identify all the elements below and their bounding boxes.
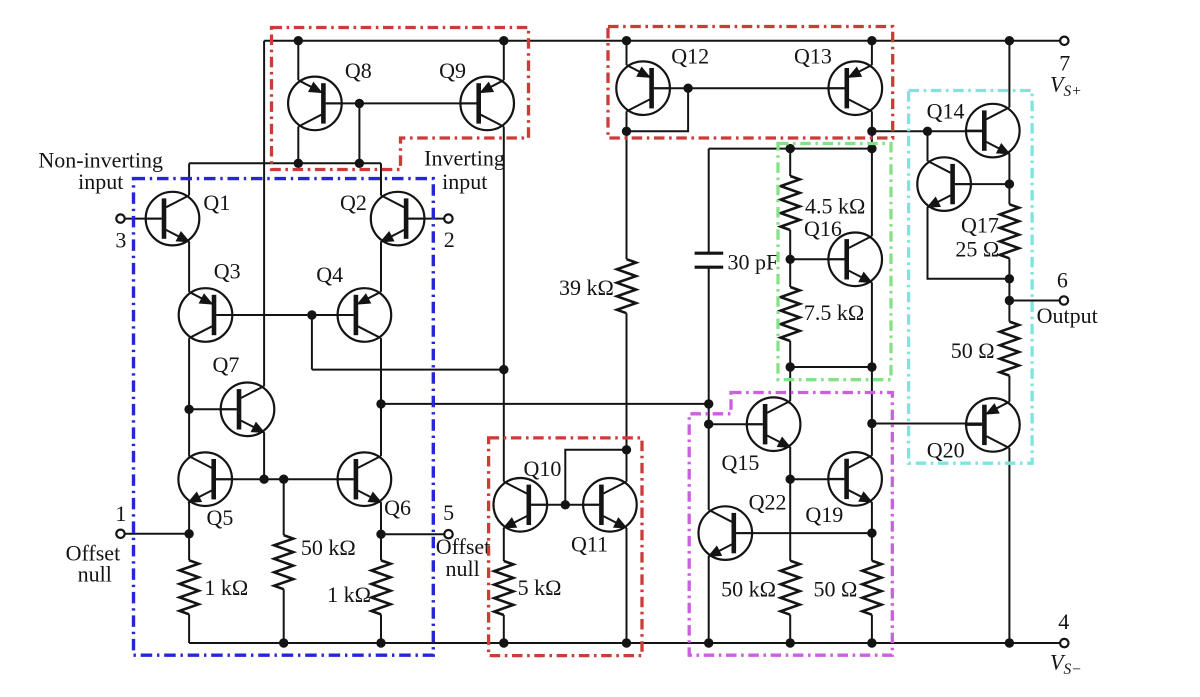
transistor Q10 xyxy=(494,478,549,532)
junction 50 kOhm gain on rail xyxy=(786,638,795,647)
transistor Q6 xyxy=(336,452,391,506)
svg-text:39 kΩ: 39 kΩ xyxy=(559,275,614,300)
wire V_S+ top rail xyxy=(264,40,1060,42)
junction Q11 emitter on rail xyxy=(622,638,631,647)
transistor Q9 xyxy=(459,77,514,131)
svg-text:Q5: Q5 xyxy=(207,505,234,530)
junction 5 kOhm on rail xyxy=(499,638,508,647)
region box current mirror Q12 Q13 (red) xyxy=(608,27,893,139)
svg-text:1: 1 xyxy=(115,501,126,526)
wire Q4 collector to Q6 collector xyxy=(380,338,382,456)
junction Q15 base node xyxy=(704,420,713,429)
svg-text:Q19: Q19 xyxy=(805,502,843,527)
junction bias network top tap xyxy=(786,144,795,153)
transistor Q15 xyxy=(746,397,801,451)
wire Q13 collector column xyxy=(871,111,873,236)
junction bias bottom right node xyxy=(867,362,876,371)
wire Q5 emitter xyxy=(188,502,190,560)
wire Q14 emitter xyxy=(1008,154,1010,205)
transistor Q14 xyxy=(965,104,1020,158)
svg-text:50 Ω: 50 Ω xyxy=(814,576,858,601)
junction 50k tap on base bus xyxy=(279,475,288,484)
transistor Q4 xyxy=(336,288,391,342)
wire Q1 Q2 collector bus xyxy=(189,162,381,164)
transistor Q8 xyxy=(288,77,343,131)
wire Q19 base xyxy=(790,478,844,480)
junction Q12 emitter on rail xyxy=(622,36,631,45)
svg-text:Q10: Q10 xyxy=(524,456,562,481)
svg-text:Q1: Q1 xyxy=(203,190,230,215)
junction Q14 collector on rail xyxy=(1005,36,1014,45)
junction output node xyxy=(1005,296,1014,305)
wire bias bottom wire xyxy=(790,366,872,368)
wire Q17 emitter path xyxy=(928,207,1010,278)
wire Q3 collector to Q5 collector xyxy=(188,338,190,456)
wire Q8 emitter to rail xyxy=(297,41,299,80)
wire Q13 collector to Q19 collector xyxy=(871,367,873,456)
svg-text:Q20: Q20 xyxy=(927,438,965,463)
junction Q16 base tap xyxy=(786,255,795,264)
transistor Q7 xyxy=(220,383,275,437)
svg-text:7.5 kΩ: 7.5 kΩ xyxy=(804,300,864,325)
junction 1 kOhm right on rail xyxy=(376,638,385,647)
svg-text:Q3: Q3 xyxy=(214,259,241,284)
junction Q17 emitter node xyxy=(1005,274,1014,283)
terminal pin 4 xyxy=(1060,639,1068,647)
svg-text:Inverting: Inverting xyxy=(424,146,505,171)
junction Q19 base tap xyxy=(786,475,795,484)
svg-text:Q9: Q9 xyxy=(439,58,466,83)
wire Q10 base to Q11 base xyxy=(531,504,599,506)
terminal pin 3 non-inverting input xyxy=(116,214,124,222)
resistor body 1 kOhm right xyxy=(371,560,390,614)
terminal pin 7 xyxy=(1060,37,1068,45)
svg-text:6: 6 xyxy=(1057,268,1068,293)
svg-text:25 Ω: 25 Ω xyxy=(955,236,999,261)
junction Q8 base node xyxy=(355,99,364,108)
svg-text:input: input xyxy=(78,169,123,194)
junction Q8 emitter on rail xyxy=(294,36,303,45)
junction 50 Ohm gain on rail xyxy=(867,638,876,647)
wire 25 Ohm to output xyxy=(1008,258,1010,321)
svg-text:null: null xyxy=(445,556,479,581)
wire pin 1 to Q5 emitter xyxy=(125,533,190,535)
transistor Q20 xyxy=(965,398,1020,452)
transistor Q13 xyxy=(827,61,882,115)
wire Q2 emitter to Q4 emitter xyxy=(380,242,382,292)
wire Q15 collector xyxy=(789,367,791,401)
transistor Q17 xyxy=(917,157,972,211)
terminal pin 2 inverting input xyxy=(444,214,452,222)
wire Q5 base to Q6 base xyxy=(216,478,354,480)
junction bias bottom left node xyxy=(786,362,795,371)
resistor body 50 Ohm output xyxy=(1000,322,1019,376)
resistor body 5 kOhm xyxy=(494,561,513,615)
junction Q4 collector node xyxy=(376,399,385,408)
wire Q12 emitter to rail xyxy=(626,41,628,65)
wire Q12 base to Q13 base xyxy=(654,87,845,89)
terminal pin 6 output xyxy=(1060,296,1068,304)
svg-text:3: 3 xyxy=(115,228,126,253)
resistor body 50 kOhm gain xyxy=(781,561,800,615)
svg-text:1 kΩ: 1 kΩ xyxy=(204,575,248,600)
junction bias bus to Q9 collector xyxy=(499,365,508,374)
wire gain node bus to Q15 base column xyxy=(381,403,709,405)
wire Q1 collector xyxy=(188,163,190,195)
junction 50k input on V_S- rail xyxy=(279,638,288,647)
wire 1 kOhm left to rail xyxy=(188,614,190,643)
junction Q13 collector node xyxy=(867,127,876,136)
transistor Q3 xyxy=(179,288,234,342)
junction cap to gain bus node xyxy=(704,399,713,408)
wire Q20 base wire xyxy=(872,423,982,425)
wire Q12 collector-base tie xyxy=(627,88,689,131)
resistor body 39 kOhm xyxy=(617,259,636,313)
wire Q8 base to collector tie xyxy=(358,103,360,163)
svg-text:2: 2 xyxy=(444,227,455,252)
wire Q6 emitter xyxy=(380,502,382,560)
wire Q11 base-collector tie xyxy=(565,450,626,505)
wire base bias bus xyxy=(312,369,504,371)
region box gain stage Q15 Q19 Q22 (magenta) xyxy=(689,393,892,656)
resistor body 4.5 kOhm xyxy=(781,176,800,230)
svg-text:Q4: Q4 xyxy=(316,262,343,287)
resistor body 25 Ohm xyxy=(1000,204,1019,258)
wire 4.5k top lead xyxy=(789,149,791,176)
svg-text:Q7: Q7 xyxy=(213,352,240,377)
resistor body 7.5 kOhm xyxy=(781,287,800,341)
wire Q17 base xyxy=(955,183,1010,185)
junction Q7 emitter on base bus xyxy=(259,475,268,484)
wire Q2 base to pin 2 xyxy=(408,218,444,220)
wire Q1 emitter to Q3 emitter xyxy=(188,242,190,292)
terminal pin 5 offset null xyxy=(444,530,452,538)
junction pin 1 tap xyxy=(184,529,193,538)
wire capacitor bottom lead xyxy=(708,267,710,404)
wire 7.5k bottom lead xyxy=(789,341,791,367)
svg-text:1 kΩ: 1 kΩ xyxy=(327,582,371,607)
wire Q9 collector down xyxy=(503,127,505,370)
resistor body 1 kOhm left xyxy=(180,560,199,614)
svg-text:5: 5 xyxy=(443,500,454,525)
svg-text:50 Ω: 50 Ω xyxy=(951,338,995,363)
wire Q8 collector xyxy=(297,127,299,164)
svg-text:Q16: Q16 xyxy=(804,216,842,241)
svg-text:Q11: Q11 xyxy=(571,532,608,557)
svg-text:Q13: Q13 xyxy=(794,44,832,69)
transistor Q11 xyxy=(582,478,637,532)
junction Q10 Q11 base node xyxy=(561,500,570,509)
junction Q22 base tap xyxy=(867,528,876,537)
wire Q1 base to pin 3 xyxy=(125,218,162,220)
svg-text:Q22: Q22 xyxy=(749,490,787,515)
wire Q2 collector xyxy=(380,163,382,195)
svg-text:null: null xyxy=(78,561,112,586)
wire 5 kOhm to rail xyxy=(503,615,505,643)
svg-text:5 kΩ: 5 kΩ xyxy=(518,575,562,600)
svg-text:Q6: Q6 xyxy=(384,495,411,520)
junction pin 5 tap xyxy=(376,530,385,539)
region box output stage Q14 Q17 Q20 (cyan) xyxy=(909,91,1033,464)
wire Q14 base wire xyxy=(872,130,982,132)
wire Q11 emitter xyxy=(626,528,628,643)
wire 50k input to rail xyxy=(283,589,285,643)
svg-text:50 kΩ: 50 kΩ xyxy=(721,576,776,601)
svg-text:Q14: Q14 xyxy=(927,99,965,124)
region box input stage (blue) xyxy=(134,179,434,656)
wire 39k lead from Q12 xyxy=(626,131,628,259)
transistor Q5 xyxy=(178,452,233,506)
wire Q15 emitter to 50k xyxy=(789,447,791,560)
region box current mirror Q10 Q11 (red) xyxy=(489,438,642,656)
svg-text:50 kΩ: 50 kΩ xyxy=(301,535,356,560)
transistor Q2 xyxy=(371,192,426,246)
region box current mirror Q8 Q9 (red) xyxy=(272,28,529,170)
wire 50 Ohm gain to rail xyxy=(871,615,873,643)
wire 50k input lead xyxy=(283,479,285,535)
junction Q20 base tap xyxy=(867,419,876,428)
wire Q3 base to Q4 base xyxy=(216,314,353,316)
junction Q17 collector tap xyxy=(923,127,932,136)
svg-text:Q2: Q2 xyxy=(340,190,367,215)
wire V_S- bottom rail xyxy=(189,642,1060,644)
svg-text:Q8: Q8 xyxy=(345,58,372,83)
wire Q9 collector to Q10 collector xyxy=(503,370,505,482)
svg-text:VS+: VS+ xyxy=(1050,72,1082,101)
wire compensation top wire xyxy=(709,148,872,150)
svg-text:30 pF: 30 pF xyxy=(728,249,779,274)
wire Q7 base xyxy=(189,408,237,410)
svg-text:Q15: Q15 xyxy=(722,450,760,475)
junction Q9 emitter on rail xyxy=(499,36,508,45)
wire Q19 emitter to 50 Ohm xyxy=(871,502,873,561)
junction Q22 emitter on rail xyxy=(704,638,713,647)
wire 50 kOhm gain to rail xyxy=(789,615,791,643)
svg-text:Q12: Q12 xyxy=(671,44,709,69)
junction Q11 collector-base tie node xyxy=(622,445,631,454)
wire 39k to Q11 collector xyxy=(626,313,628,481)
wire Q12 collector xyxy=(626,111,628,131)
wire Q8 base to Q9 base xyxy=(326,102,477,104)
wire Q22 emitter xyxy=(708,556,710,643)
wire Q10 emitter xyxy=(503,528,505,561)
svg-text:4.5 kΩ: 4.5 kΩ xyxy=(805,194,865,219)
wire Q15 base xyxy=(709,423,763,425)
resistor body 50 Ohm gain xyxy=(862,561,881,615)
junction base tie on bus xyxy=(355,159,364,168)
wire Q17 collector xyxy=(927,131,929,161)
transistor Q1 xyxy=(145,192,200,246)
wire output wire xyxy=(1009,300,1059,302)
svg-text:Q17: Q17 xyxy=(961,213,999,238)
wire Q9 emitter to rail xyxy=(503,41,505,80)
svg-text:4: 4 xyxy=(1058,609,1069,634)
wire Q7 collector to V_S+ rail xyxy=(263,41,265,387)
wire 50 Ohm to Q20 emitter xyxy=(1008,376,1010,402)
capacitor C1 30 pF xyxy=(695,253,724,267)
junction Q12 base node xyxy=(683,84,692,93)
wire 1 kOhm right to rail xyxy=(380,614,382,643)
wire Q20 collector to rail xyxy=(1008,448,1010,643)
svg-text:input: input xyxy=(442,169,487,194)
wire capacitor top lead xyxy=(708,149,710,254)
junction Q3 Q4 base node xyxy=(307,310,316,319)
junction Q17 base node xyxy=(1005,179,1014,188)
wire Q16 base xyxy=(790,258,844,260)
wire Q13 emitter to rail xyxy=(871,41,873,65)
transistor Q16 xyxy=(827,232,882,286)
wire Q7 emitter xyxy=(263,433,265,480)
junction Q13 collector to bias top xyxy=(867,144,876,153)
wire base node drop xyxy=(311,315,313,370)
resistor body 50 kOhm input xyxy=(274,535,293,589)
wire Q22 collector xyxy=(708,404,710,510)
junction Q12 collector node xyxy=(622,127,631,136)
junction Q20 collector on rail xyxy=(1005,638,1014,647)
junction Q13 emitter on rail xyxy=(867,36,876,45)
wire Q22 base xyxy=(736,532,872,534)
svg-text:Output: Output xyxy=(1037,303,1098,328)
transistor Q22 xyxy=(699,506,754,560)
transistor Q19 xyxy=(827,452,882,506)
svg-text:VS−: VS− xyxy=(1050,650,1082,679)
wire 4.5k to 7.5k xyxy=(789,230,791,287)
junction Q8 collector on bus xyxy=(294,159,303,168)
terminal pin 1 offset null xyxy=(116,530,124,538)
region box bias network Q16 (green) xyxy=(778,144,891,380)
transistor Q12 xyxy=(616,61,671,115)
wire Q16 emitter xyxy=(871,283,873,368)
wire pin 5 to Q6 emitter xyxy=(381,533,445,535)
wire Q14 collector to rail xyxy=(1008,41,1010,108)
junction Q7 base tap xyxy=(184,405,193,414)
